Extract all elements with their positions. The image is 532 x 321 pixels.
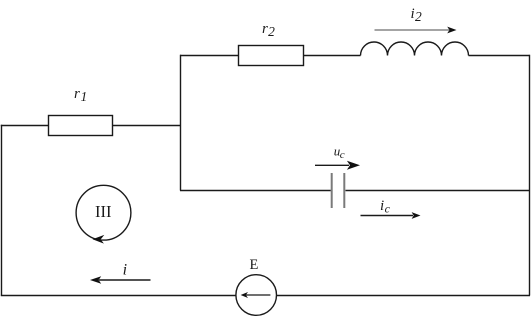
svg-text:ic: ic: [380, 198, 391, 216]
wire r1 left segment: [1, 125, 49, 127]
wire right vertical: [529, 55, 531, 296]
arrow uc: [315, 161, 360, 170]
wire middle vertical: [180, 55, 182, 191]
svg-text:E: E: [250, 257, 259, 273]
source E inner arrow: [241, 292, 271, 298]
arrow ic: [361, 212, 421, 219]
svg-text:uc: uc: [334, 144, 345, 162]
inductor L: [361, 42, 469, 56]
capacitor C plates: [332, 173, 345, 208]
wire bottom left segment: [1, 295, 236, 297]
loop III circle: [76, 185, 131, 240]
resistor r1: [49, 116, 113, 136]
wire top left segment: [180, 55, 239, 57]
wire inductor to right corner: [469, 55, 530, 57]
wire bottom right segment: [277, 295, 531, 297]
wire r1 right segment: [113, 125, 182, 127]
wire capacitor right segment: [346, 190, 531, 192]
arrow i2: [375, 27, 457, 34]
wire capacitor left segment: [180, 190, 331, 192]
source E circle: [236, 275, 277, 316]
svg-text:i2: i2: [411, 6, 422, 24]
loop III arrowhead: [93, 235, 105, 244]
svg-text:r2: r2: [262, 21, 275, 39]
wire r2 to inductor: [304, 55, 361, 57]
arrow i: [90, 276, 151, 284]
svg-text:III: III: [95, 202, 111, 221]
svg-text:i: i: [123, 262, 127, 279]
svg-text:r1: r1: [74, 86, 87, 104]
resistor r2: [239, 46, 304, 66]
wire left vertical: [1, 125, 3, 296]
